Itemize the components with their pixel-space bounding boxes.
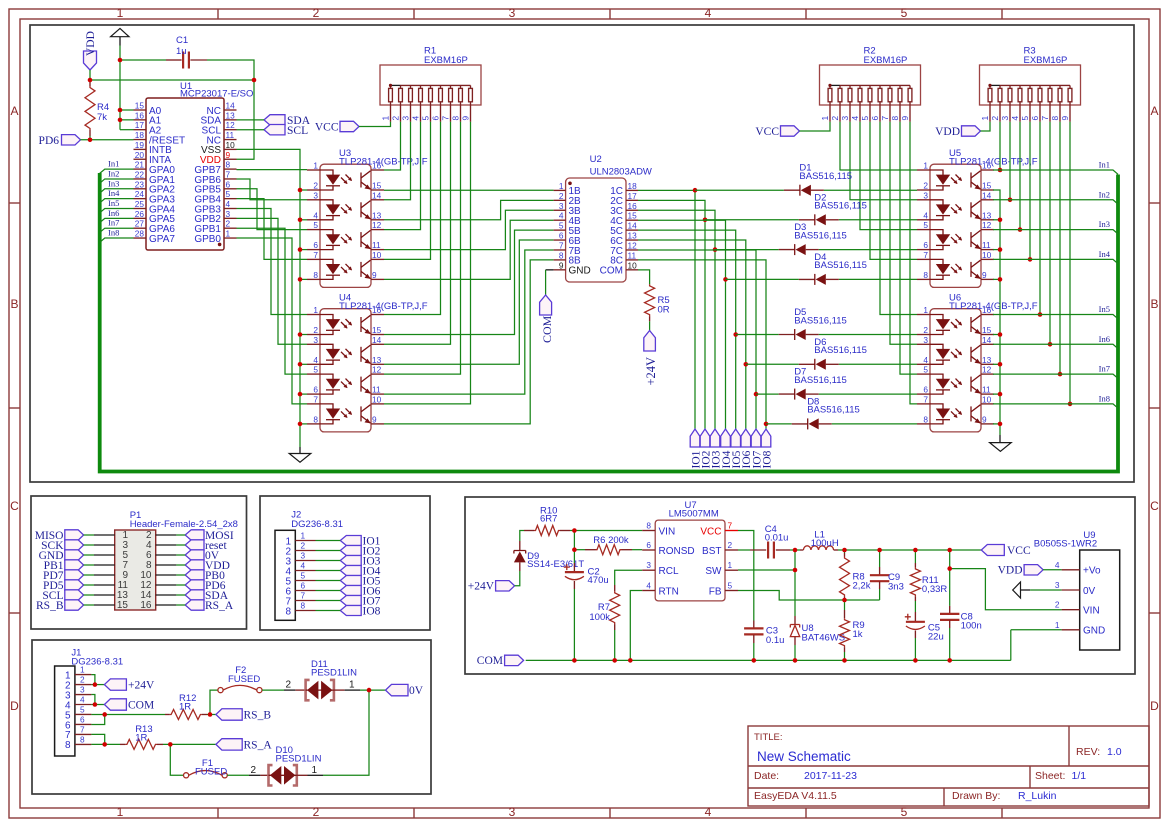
svg-text:GPA7: GPA7 (149, 234, 175, 245)
svg-text:FUSED: FUSED (228, 674, 260, 685)
svg-text:3: 3 (559, 201, 564, 211)
svg-text:1R: 1R (135, 733, 147, 744)
port IO6 (741, 429, 753, 469)
svg-text:4: 4 (301, 561, 306, 571)
svg-text:3: 3 (840, 116, 850, 121)
svg-text:In8: In8 (1099, 393, 1110, 403)
svg-text:18: 18 (135, 130, 145, 140)
svg-text:13: 13 (982, 355, 992, 365)
svg-text:0.01u: 0.01u (765, 533, 789, 544)
wire U2 6C output net (638, 240, 746, 429)
port IO8 (J2) (340, 605, 380, 617)
svg-text:16: 16 (140, 600, 152, 611)
svg-text:16: 16 (982, 161, 992, 171)
svg-text:EXBM16P: EXBM16P (424, 55, 468, 66)
svg-text:11: 11 (372, 240, 381, 250)
wire PD6 to /RESET (81, 139, 134, 141)
port IO5 (J2) (340, 575, 380, 587)
wire In7 (GPA6) (100, 218, 134, 233)
wire R3 pin5 pull-up (1029, 122, 1031, 260)
port PD7 (43, 570, 84, 582)
wire U3 emitter1 to U2 1B (384, 189, 554, 191)
svg-text:8: 8 (226, 160, 231, 170)
wire R3 pin6 pull-up (1039, 122, 1041, 315)
svg-text:In6: In6 (1099, 334, 1110, 344)
wire R13 to RS_A (163, 743, 216, 745)
svg-text:16: 16 (135, 110, 145, 120)
wire F1 to D10 (227, 765, 260, 776)
svg-text:2017-11-23: 2017-11-23 (804, 770, 857, 782)
svg-text:7: 7 (313, 250, 318, 260)
svg-text:5: 5 (559, 221, 564, 231)
svg-text:6: 6 (923, 385, 928, 395)
wire R10 to VIN node (570, 530, 574, 532)
svg-text:7: 7 (313, 394, 318, 404)
svg-text:100n: 100n (961, 621, 982, 632)
svg-text:R6 200k: R6 200k (593, 535, 629, 546)
wire diode D8 branch (766, 423, 792, 425)
wire J2 pin3 (316, 560, 341, 562)
svg-text:6: 6 (923, 240, 928, 250)
svg-text:COM: COM (128, 700, 154, 712)
svg-text:6: 6 (226, 179, 231, 189)
svg-text:18: 18 (628, 181, 638, 191)
svg-text:100uH: 100uH (811, 538, 839, 549)
svg-text:2: 2 (313, 805, 320, 819)
svg-text:3: 3 (923, 190, 928, 200)
IC U2 ULN2803ADW (554, 154, 652, 282)
svg-text:8: 8 (923, 414, 928, 424)
port IO1 (690, 429, 702, 469)
svg-text:D: D (1150, 699, 1159, 713)
svg-text:8: 8 (285, 606, 291, 617)
svg-text:In2: In2 (1099, 189, 1110, 199)
wire RTN (630, 591, 642, 661)
wire R3 pin2 pull-up (999, 122, 1001, 170)
port RS_B (216, 709, 271, 722)
ground (right, emitters) (990, 435, 1012, 451)
svg-text:15: 15 (628, 211, 638, 221)
svg-text:3: 3 (1000, 116, 1010, 121)
port COM (U2) (540, 295, 554, 343)
wire A2 stub (120, 129, 134, 131)
svg-text:TLP281-4(GB-TP,J,F: TLP281-4(GB-TP,J,F (339, 301, 428, 312)
section box J1 (32, 640, 431, 794)
wire P1 pin1 (84, 534, 94, 536)
svg-text:12: 12 (982, 220, 992, 230)
wire emitter to U2 4B (384, 220, 554, 279)
port RS_A (216, 739, 272, 752)
svg-text:5: 5 (313, 220, 318, 230)
wire J2 pin4 (316, 570, 341, 572)
svg-text:4: 4 (923, 210, 928, 220)
wire In4 row (right) (993, 249, 1118, 264)
wire In6 row (right) (993, 334, 1118, 349)
wire 0V (1030, 589, 1062, 591)
svg-text:A: A (1150, 104, 1158, 118)
wire A1 stub (120, 119, 134, 121)
wire VSS to cathode bus (237, 149, 301, 447)
inductor L1 100uH (795, 530, 839, 551)
port PD5 (43, 580, 84, 592)
svg-text:22: 22 (135, 169, 145, 179)
junction dots U1 area (118, 58, 123, 63)
capacitor C5 22u (905, 601, 944, 643)
wire R2 pin4 to U5/U6 anode (860, 122, 917, 230)
svg-text:VCC: VCC (1007, 545, 1031, 557)
wire In2 (GPA1) (100, 168, 134, 183)
wire R2 pin8 to U5/U6 anode (900, 122, 917, 374)
svg-text:4: 4 (705, 805, 712, 819)
diode D1 BAS516,115 (784, 163, 852, 196)
svg-text:9: 9 (982, 414, 987, 424)
diode D8 BAS516,115 (792, 396, 860, 429)
svg-text:4: 4 (411, 116, 421, 121)
diode D7 BAS516,115 (779, 367, 847, 400)
svg-text:+24V: +24V (128, 680, 155, 692)
wire emitter to U2 5B (384, 230, 554, 334)
svg-text:12: 12 (372, 220, 382, 230)
wire VDD to R3 pin1 (981, 122, 991, 131)
capacitor C9 3n3 (870, 550, 904, 600)
port IO3 (J2) (340, 555, 380, 567)
svg-text:RONSD: RONSD (659, 546, 695, 557)
wire GPB2 to opto (237, 218, 308, 344)
svg-text:B: B (10, 297, 18, 311)
svg-text:VCC: VCC (755, 126, 779, 138)
svg-text:13: 13 (982, 210, 992, 220)
svg-text:GND: GND (569, 266, 591, 277)
diode D5 BAS516,115 (779, 307, 847, 340)
svg-text:C: C (1150, 499, 1159, 513)
connector J1 DG236-8.31 (55, 648, 124, 757)
svg-text:8: 8 (80, 734, 85, 744)
svg-text:9: 9 (1060, 116, 1070, 121)
resistor R7 100k (589, 585, 619, 630)
wire P1 pin14 (176, 594, 185, 596)
port VDD (185, 560, 230, 572)
svg-text:BAS516,115: BAS516,115 (814, 201, 867, 212)
resistor R9 1k (840, 600, 865, 652)
cathode bus stubs and junctions (298, 188, 307, 427)
svg-text:SS14-E3/61T: SS14-E3/61T (527, 559, 584, 570)
wire J1 pin7 (91, 734, 104, 744)
port IO2 (700, 429, 712, 469)
resistor R8 2,2k (840, 550, 871, 600)
svg-text:23: 23 (135, 179, 145, 189)
port SDA (185, 590, 229, 602)
svg-text:22u: 22u (928, 632, 944, 643)
capacitor C4 0.01u (750, 524, 790, 559)
wire P1 pin5 (84, 554, 94, 556)
svg-text:4: 4 (559, 211, 564, 221)
svg-text:26: 26 (135, 209, 145, 219)
svg-text:EXBM16P: EXBM16P (864, 55, 908, 66)
wire In5 (GPA4) (100, 198, 134, 213)
svg-text:9: 9 (559, 260, 564, 270)
wire output rail (838, 549, 981, 551)
svg-text:BAS516,115: BAS516,115 (794, 315, 847, 326)
svg-text:2: 2 (301, 541, 306, 551)
wire In6 (GPA5) (100, 208, 134, 223)
svg-text:IO8: IO8 (363, 605, 381, 617)
diode D3 BAS516,115 (779, 222, 847, 255)
svg-text:4: 4 (226, 199, 231, 209)
svg-text:2: 2 (226, 219, 231, 229)
wire R3 pin9 pull-up (1069, 122, 1071, 404)
wire VDD flag to rail (89, 70, 91, 80)
svg-text:1: 1 (349, 680, 355, 691)
svg-text:25: 25 (135, 199, 145, 209)
wire C1 left (120, 59, 166, 61)
port IO6 (J2) (340, 585, 380, 597)
svg-text:VIN: VIN (659, 526, 676, 537)
svg-text:17: 17 (628, 191, 638, 201)
section box J2 (260, 496, 430, 630)
optocoupler U6 TLP281-4 (917, 293, 1038, 432)
svg-text:10: 10 (982, 250, 992, 260)
wire emitter to U2 2B (384, 200, 554, 219)
wire J2 pin5 (316, 580, 341, 582)
svg-text:8: 8 (646, 521, 651, 531)
ESD diode D10 PESD1LIN (260, 745, 321, 786)
optocoupler U5 TLP281-4 (917, 148, 1038, 287)
svg-text:8: 8 (313, 414, 318, 424)
wire GPB5 to opto (237, 189, 308, 230)
ESD diode D11 PESD1LIN (295, 659, 357, 700)
resistor R10 (524, 506, 570, 536)
wire C4 to SW node (790, 549, 795, 551)
svg-text:15: 15 (372, 325, 382, 335)
svg-text:2: 2 (313, 6, 320, 20)
wire R3 pin4 pull-up (1019, 122, 1021, 230)
wire P1 pin12 (176, 584, 185, 586)
svg-text:Header-Female-2.54_2x8: Header-Female-2.54_2x8 (130, 519, 238, 530)
svg-text:6: 6 (301, 581, 306, 591)
wire P1 pin15 (84, 604, 94, 606)
svg-text:VDD: VDD (85, 31, 97, 56)
wire R6 to RONSD (632, 549, 642, 551)
port SCK (41, 540, 83, 552)
wire R2 pin5 to U5/U6 anode (870, 122, 917, 260)
svg-text:GPB0: GPB0 (194, 234, 221, 245)
svg-text:15: 15 (982, 181, 992, 191)
wire P1 pin3 (84, 544, 94, 546)
svg-text:4: 4 (313, 355, 318, 365)
svg-text:28: 28 (135, 229, 145, 239)
svg-text:C: C (10, 499, 19, 513)
svg-text:BST: BST (702, 546, 721, 557)
svg-text:470u: 470u (588, 575, 609, 586)
wire U2 4C output net (638, 220, 726, 429)
svg-text:7: 7 (559, 240, 564, 250)
svg-text:RS_A: RS_A (244, 739, 273, 751)
svg-text:C1: C1 (176, 35, 188, 46)
svg-text:ULN2803ADW: ULN2803ADW (590, 167, 652, 178)
port MOSI (185, 530, 234, 542)
wire emitter to U2 3B (384, 210, 554, 249)
svg-text:15: 15 (982, 325, 992, 335)
capacitor C8 100n (940, 550, 982, 632)
svg-text:8: 8 (313, 270, 318, 280)
optocoupler U4 TLP281-4 (307, 293, 428, 432)
port VDD (R3) (935, 126, 980, 138)
svg-text:12: 12 (982, 365, 992, 375)
svg-text:BAS516,115: BAS516,115 (814, 345, 867, 356)
svg-text:12: 12 (226, 120, 236, 130)
wire A0 stub (120, 109, 134, 111)
svg-text:3: 3 (1055, 580, 1060, 590)
wire GPB7 to U3 pin1 (237, 169, 308, 171)
svg-text:EXBM16P: EXBM16P (1024, 55, 1068, 66)
svg-text:BAT46WS: BAT46WS (802, 633, 846, 644)
svg-text:2: 2 (250, 765, 256, 776)
wire D11 to 0V (345, 680, 386, 691)
In bus (left) (100, 173, 1118, 472)
svg-text:TLP281-4(GB-TP,J,F: TLP281-4(GB-TP,J,F (949, 157, 1038, 168)
port SCL (264, 125, 308, 138)
port RS_B (36, 600, 84, 612)
port 0V (185, 550, 220, 562)
wire U8 to COM (794, 645, 796, 660)
wire U2 1C output net (638, 189, 695, 191)
svg-text:14: 14 (372, 335, 382, 345)
svg-text:10: 10 (372, 394, 382, 404)
svg-text:15: 15 (135, 101, 145, 111)
svg-text:21: 21 (135, 160, 145, 170)
diode D6 BAS516,115 (799, 337, 867, 370)
svg-text:1: 1 (820, 116, 830, 121)
svg-text:8: 8 (559, 250, 564, 260)
wire In8 (GPA7) (100, 228, 134, 243)
svg-text:5: 5 (421, 116, 431, 121)
port +24V (J1) (104, 679, 155, 692)
wire GPB0 to opto (237, 238, 308, 404)
svg-text:VCC: VCC (315, 122, 339, 134)
svg-text:In5: In5 (108, 198, 119, 208)
wire J2 pin6 (316, 590, 341, 592)
svg-text:1: 1 (923, 305, 928, 315)
wire C2 to COM (573, 589, 575, 660)
svg-text:A: A (10, 104, 18, 118)
svg-text:4: 4 (850, 116, 860, 121)
svg-text:10: 10 (226, 140, 236, 150)
svg-text:1: 1 (923, 161, 928, 171)
resistor network R1 EXBM16P (380, 46, 481, 122)
svg-text:0.1u: 0.1u (766, 635, 785, 646)
svg-text:5: 5 (860, 116, 870, 121)
svg-text:Sheet:: Sheet: (1035, 770, 1065, 782)
wire In7 row (right) (993, 364, 1118, 379)
fuse F1 (184, 758, 228, 778)
wire P1 pin16 (176, 604, 185, 606)
svg-text:In1: In1 (1099, 160, 1110, 170)
svg-text:1: 1 (313, 161, 318, 171)
svg-text:3: 3 (646, 560, 651, 570)
wire J1 pin5 to R12 (91, 713, 165, 715)
svg-text:3: 3 (313, 190, 318, 200)
svg-text:6: 6 (646, 540, 651, 550)
port IO4 (721, 429, 733, 469)
wire SCL (237, 129, 265, 131)
wire P1 pin8 (176, 564, 185, 566)
wire P1 pin6 (176, 554, 185, 556)
svg-text:13: 13 (226, 110, 236, 120)
svg-text:100k: 100k (589, 612, 610, 623)
wire VIN node down (573, 531, 575, 564)
svg-text:4: 4 (646, 581, 651, 591)
wire In5 row (right) (993, 304, 1118, 319)
svg-text:In3: In3 (1099, 219, 1110, 229)
port RS_A (185, 600, 234, 612)
wire J1 pin2 to +24V (91, 684, 104, 686)
title block (748, 726, 1149, 806)
svg-text:RTN: RTN (659, 586, 679, 597)
wire VIN (574, 530, 642, 532)
svg-text:U2: U2 (590, 154, 602, 165)
wire RS_A node down to F1 (170, 744, 183, 775)
wire VDD rail (90, 79, 254, 81)
svg-text:1.0: 1.0 (1107, 746, 1122, 758)
svg-text:8: 8 (451, 116, 461, 121)
diode D9 SS14-E3/61T (514, 541, 584, 571)
svg-text:3: 3 (226, 209, 231, 219)
svg-text:In4: In4 (1099, 249, 1111, 259)
svg-text:16: 16 (372, 305, 382, 315)
svg-text:3: 3 (80, 685, 85, 695)
svg-text:9: 9 (372, 270, 377, 280)
svg-text:17: 17 (135, 120, 145, 130)
svg-text:1/1: 1/1 (1072, 770, 1087, 782)
svg-text:4: 4 (705, 6, 712, 20)
capacitor C3 0.1u (744, 621, 784, 647)
wire In3 (GPA2) (100, 178, 134, 193)
wire P1 pin7 (84, 564, 94, 566)
svg-text:14: 14 (628, 221, 638, 231)
junction dots J1 (93, 682, 98, 687)
svg-text:8: 8 (1050, 116, 1060, 121)
svg-text:+24V: +24V (468, 581, 495, 593)
wire R2 pin6 to U5/U6 anode (880, 122, 917, 315)
svg-text:5: 5 (901, 6, 908, 20)
svg-text:New Schematic: New Schematic (757, 749, 851, 764)
svg-text:1u: 1u (176, 46, 187, 57)
ground flag (A0-A2 net) (111, 28, 129, 45)
wire diode D3 branch (715, 249, 779, 251)
wire VDD to +Vo (1043, 569, 1062, 571)
svg-text:10: 10 (628, 260, 638, 270)
wire J2 pin2 (316, 550, 341, 552)
svg-text:7: 7 (728, 521, 733, 531)
wire +24V to D9 (515, 571, 520, 586)
wire VCC to R1 pin1 (359, 122, 391, 127)
port GND (39, 550, 84, 562)
wire A-address vertical (119, 60, 121, 130)
svg-text:4: 4 (923, 355, 928, 365)
wire R1 pin8 to collector (384, 122, 461, 374)
wire R2 pin3 to U5/U6 anode (850, 122, 917, 200)
resistor network R3 EXBM16P (980, 46, 1081, 122)
svg-text:PESD1LIN: PESD1LIN (276, 754, 322, 765)
svg-text:4: 4 (80, 695, 85, 705)
wire R1 pin7 to collector (384, 122, 451, 344)
svg-text:FUSED: FUSED (195, 767, 227, 778)
svg-text:IO8: IO8 (761, 450, 773, 468)
port COM (J1) (104, 699, 154, 712)
wire U2 COM pin to R5 (638, 270, 650, 284)
svg-text:RS_A: RS_A (205, 600, 234, 612)
svg-text:2,2k: 2,2k (853, 581, 871, 592)
